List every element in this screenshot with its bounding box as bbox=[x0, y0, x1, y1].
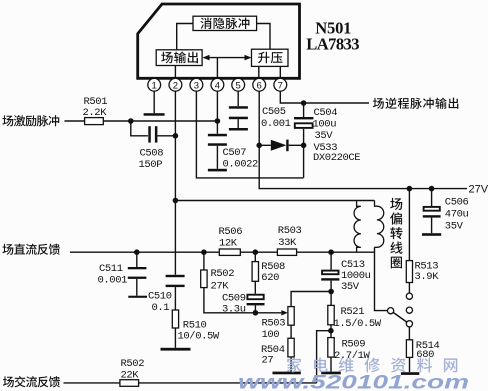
node junction diode cathode/C504 bbox=[301, 143, 307, 149]
IC internal block 升压 box bbox=[252, 49, 289, 66]
resistor R509 bbox=[330, 331, 332, 338]
node junction wire/R508 bbox=[253, 249, 259, 255]
svg-text:27K: 27K bbox=[211, 280, 230, 292]
svg-text:7: 7 bbox=[278, 80, 283, 91]
op-amp/IC U1 N501 LA7833 outline bbox=[138, 4, 300, 78]
svg-text:R508: R508 bbox=[261, 261, 285, 273]
pin 7 bbox=[274, 78, 287, 91]
svg-text:R502: R502 bbox=[121, 358, 145, 370]
svg-text:1: 1 bbox=[152, 80, 157, 91]
svg-text:LA7833: LA7833 bbox=[306, 35, 359, 54]
wire C504 to diode node bbox=[303, 129, 305, 145]
svg-text:www.520101.com: www.520101.com bbox=[238, 371, 469, 391]
resistor R504 body bbox=[288, 338, 294, 357]
capacitor C509 (electrolytic) bbox=[247, 295, 263, 300]
svg-text:C508: C508 bbox=[140, 147, 164, 159]
svg-text:0.001: 0.001 bbox=[98, 274, 128, 286]
ground bar under C506 bbox=[422, 233, 441, 236]
svg-text:R509: R509 bbox=[342, 339, 366, 351]
svg-text:5: 5 bbox=[236, 80, 241, 91]
input label 场直流反馈 bbox=[2, 244, 60, 255]
svg-text:0.001: 0.001 bbox=[261, 118, 291, 130]
node junction rail/R513 bbox=[407, 186, 413, 192]
capacitor C513 (electrolytic) bbox=[330, 252, 332, 270]
wire 升压 to pin 7 bbox=[279, 66, 281, 78]
pin 1 bbox=[148, 78, 161, 91]
svg-text:0.1: 0.1 bbox=[152, 302, 170, 314]
wire pot to R504 bbox=[290, 325, 292, 338]
ground bar under R510 bbox=[161, 348, 191, 351]
svg-text:R521: R521 bbox=[341, 306, 365, 318]
capacitor C506 (electrolytic) bbox=[424, 207, 440, 211]
svg-text:470u: 470u bbox=[445, 209, 469, 221]
IC internal block 升压 label bbox=[258, 52, 283, 64]
svg-text:R506: R506 bbox=[219, 226, 243, 238]
wire pin 4 down bbox=[216, 91, 218, 134]
capacitor plate at pin 1 bbox=[144, 113, 165, 116]
wire rail to R513 bbox=[408, 189, 410, 261]
switch wiper arm bbox=[393, 313, 406, 323]
wire switch to R514 bbox=[408, 327, 410, 340]
input label 场交流反馈 bbox=[3, 376, 60, 387]
svg-text:R502: R502 bbox=[211, 268, 235, 280]
ground bar under R509 bbox=[321, 372, 341, 375]
svg-text:0.0022: 0.0022 bbox=[223, 158, 259, 170]
capacitor at pin 4 (upper) bbox=[208, 134, 227, 137]
pin 4 bbox=[211, 78, 224, 91]
pin 3 bbox=[190, 78, 203, 91]
wire R502 bottom to C509 node bbox=[204, 288, 256, 313]
svg-text:12K: 12K bbox=[219, 238, 238, 250]
resistor R501 body bbox=[85, 118, 104, 125]
wire pot top to C513 node bbox=[291, 292, 331, 307]
svg-text:10/0.5W: 10/0.5W bbox=[178, 330, 220, 342]
wire C508 to pin2 line bbox=[157, 135, 175, 137]
svg-text:2: 2 bbox=[173, 80, 178, 91]
svg-text:C506: C506 bbox=[445, 197, 469, 209]
resistor R506 body bbox=[219, 249, 240, 255]
capacitor C504 (electrolytic) bbox=[294, 117, 313, 119]
svg-text:2.7/1W: 2.7/1W bbox=[334, 350, 371, 362]
svg-text:35V: 35V bbox=[445, 220, 464, 232]
svg-text:100: 100 bbox=[262, 329, 280, 341]
svg-text:35V: 35V bbox=[315, 130, 334, 142]
svg-text:C505: C505 bbox=[262, 106, 286, 118]
svg-text:C511: C511 bbox=[99, 263, 123, 275]
switch S1 contacts bbox=[406, 293, 412, 299]
node junction pin7 wire/C504 bbox=[301, 100, 307, 106]
wire tap to AC feedback row bbox=[317, 331, 331, 383]
wire C510 to R510 bbox=[174, 287, 176, 310]
svg-text:R503: R503 bbox=[262, 317, 286, 329]
svg-text:150P: 150P bbox=[139, 159, 163, 171]
svg-text:620: 620 bbox=[261, 272, 279, 284]
svg-text:100u: 100u bbox=[313, 119, 337, 131]
wire 升压 to pin 6 bbox=[258, 66, 260, 78]
wire pin 2 down to C510 bbox=[174, 91, 176, 275]
ground bar under R504 bbox=[273, 372, 301, 375]
diode V533 bbox=[259, 144, 271, 146]
wire R501 to pin4 node bbox=[103, 120, 217, 122]
node C513 bottom/R521 top bbox=[328, 289, 334, 295]
svg-text:35V: 35V bbox=[341, 281, 360, 293]
svg-text:27V: 27V bbox=[469, 184, 488, 196]
resistor R502 27K bbox=[203, 252, 205, 270]
wire pin 3 down and right (ground bus) bbox=[196, 91, 303, 178]
node junction input/C508 bbox=[128, 118, 134, 124]
resistor R521 bbox=[330, 292, 332, 306]
node junction pin6 line/diode anode bbox=[256, 143, 262, 149]
capacitor at pin 5 (C505) plates bbox=[229, 106, 248, 109]
node junction pin2 line/coil top wire bbox=[173, 198, 179, 204]
svg-text:C507: C507 bbox=[223, 147, 247, 159]
svg-text:4: 4 bbox=[215, 80, 220, 91]
wire pin 7 to output bbox=[280, 91, 369, 103]
svg-text:3.3u: 3.3u bbox=[222, 304, 246, 316]
capacitor C507 lower plate bbox=[208, 169, 227, 172]
pin 5 bbox=[232, 78, 245, 91]
wire R510 to ground bbox=[174, 328, 176, 348]
svg-text:3.9K: 3.9K bbox=[415, 271, 440, 283]
node C509/R502/wiper junction bbox=[253, 310, 259, 316]
wire 消隐脉冲 to 场输出 bbox=[177, 24, 193, 50]
wire cap to lower plate bbox=[216, 146, 218, 169]
wire node to C508 left bbox=[131, 121, 148, 136]
svg-text:DX0220CE: DX0220CE bbox=[313, 152, 360, 164]
wire diode node down to ground bus bbox=[303, 145, 305, 178]
wire rail to C506 bbox=[431, 189, 433, 206]
ground bar under R514 bbox=[401, 372, 419, 375]
inductor L: 场偏转线圈 left winding bbox=[354, 201, 361, 253]
IC internal block 消隐脉冲 label bbox=[200, 18, 249, 30]
capacitor C510 bbox=[166, 275, 185, 277]
inductor L: 场偏转线圈 right winding bbox=[375, 201, 384, 248]
wire pin 5 down bbox=[237, 91, 239, 106]
double-arrow wire between 场输出 and 升压 bbox=[204, 57, 251, 59]
wire 场输出 to pin 2 bbox=[174, 66, 176, 79]
capacitor C511 bbox=[136, 252, 138, 267]
wire arrow-line to pin 4 bbox=[216, 58, 218, 79]
input label 场激励脉冲 bbox=[2, 115, 59, 126]
wire coil bottom to switch bbox=[375, 247, 388, 310]
svg-text:1.5/0.5W: 1.5/0.5W bbox=[334, 318, 382, 330]
svg-text:3: 3 bbox=[194, 80, 199, 91]
resistor R513 body bbox=[406, 261, 412, 283]
wire R504 to ground bbox=[290, 357, 292, 372]
resistor R508 bbox=[254, 252, 256, 261]
resistor R510 body bbox=[172, 310, 178, 328]
wire 消隐脉冲 to 升压 bbox=[257, 24, 270, 50]
wire pin 6 down to 27V rail bbox=[259, 91, 467, 189]
node junction wire/C513 bbox=[328, 249, 334, 255]
svg-text:6: 6 bbox=[257, 80, 262, 91]
wire node to C504 bbox=[303, 103, 305, 117]
output label 场逆程脉冲输出 bbox=[373, 98, 458, 109]
svg-text:R503: R503 bbox=[278, 225, 302, 237]
wire 场交流反馈 row bbox=[64, 382, 317, 384]
wire R514 to ground bbox=[409, 357, 411, 372]
svg-text:C510: C510 bbox=[148, 290, 172, 302]
wire input to R501 bbox=[65, 120, 85, 122]
svg-text:33K: 33K bbox=[278, 237, 297, 249]
IC internal block 消隐脉冲 box bbox=[193, 16, 257, 30]
capacitor C508 bbox=[148, 126, 151, 142]
wire pin2 node to coil top bbox=[175, 200, 374, 202]
resistor R503 33K body bbox=[277, 249, 296, 255]
node R521/R509 tap bbox=[328, 328, 334, 334]
svg-text:27: 27 bbox=[262, 354, 274, 366]
pin 2 bbox=[169, 78, 182, 91]
IC internal block 场输出 box bbox=[156, 50, 202, 66]
node junction C508/pin2 bbox=[173, 133, 179, 139]
IC internal block 场输出 label bbox=[161, 52, 198, 64]
svg-text:1000u: 1000u bbox=[341, 270, 371, 282]
node junction wire/C511 bbox=[134, 249, 140, 255]
node junction rail/C506 bbox=[429, 186, 435, 192]
wire 场直流反馈 row bbox=[70, 251, 375, 253]
label 场偏转线圈 (vertical) bbox=[390, 198, 402, 268]
svg-text:C504: C504 bbox=[314, 107, 338, 119]
ground bar under C511 bbox=[128, 296, 147, 298]
potentiometer R503 100 bbox=[288, 307, 294, 326]
resistor R502 22K body bbox=[120, 380, 139, 387]
pin 6 bbox=[253, 78, 266, 91]
watermark 家电维修资料网 bbox=[287, 357, 457, 372]
node junction pin4/input wire bbox=[215, 118, 221, 124]
resistor R514 body bbox=[406, 340, 412, 358]
wire to pot wiper with arrow bbox=[255, 312, 281, 314]
wire R513 to switch contact bbox=[408, 283, 410, 294]
node junction wire/R502-27K bbox=[201, 249, 207, 255]
wire pin1 to coupling plate bbox=[153, 91, 155, 113]
